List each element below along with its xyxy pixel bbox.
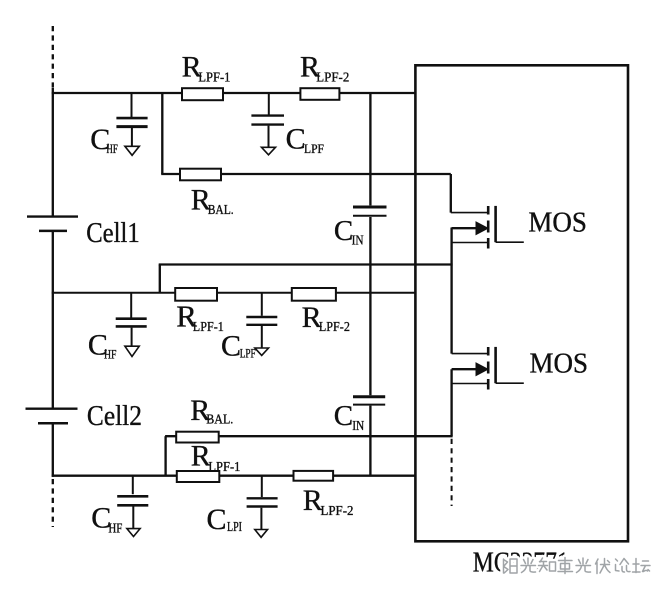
svg-text:C: C [334,400,353,432]
svg-text:IN: IN [352,233,364,248]
svg-text:LPF-2: LPF-2 [321,504,354,519]
svg-text:IN: IN [352,418,364,433]
svg-text:LPF-1: LPF-1 [208,460,240,475]
svg-text:C: C [334,215,353,247]
svg-text:Cell1: Cell1 [86,218,140,249]
svg-text:LPF: LPF [304,141,324,156]
svg-text:MOS: MOS [530,349,589,380]
svg-text:LPI: LPI [227,519,242,534]
svg-text:BAL.: BAL. [208,202,234,217]
svg-text:C: C [207,503,227,536]
svg-text:C: C [221,329,241,362]
svg-text:HF: HF [108,520,122,535]
svg-text:MOS: MOS [528,208,587,239]
svg-text:LPF-1: LPF-1 [193,320,224,335]
svg-text:LPF-2: LPF-2 [316,70,349,85]
svg-text:HF: HF [106,141,118,156]
svg-text:LPF-2: LPF-2 [319,320,350,335]
svg-text:Cell2: Cell2 [87,401,142,432]
svg-text:HF: HF [104,347,117,362]
svg-text:BAL.: BAL. [206,412,233,427]
svg-text:LPF-1: LPF-1 [198,70,230,85]
svg-text:LPF: LPF [240,345,256,360]
svg-text:C: C [286,123,306,156]
